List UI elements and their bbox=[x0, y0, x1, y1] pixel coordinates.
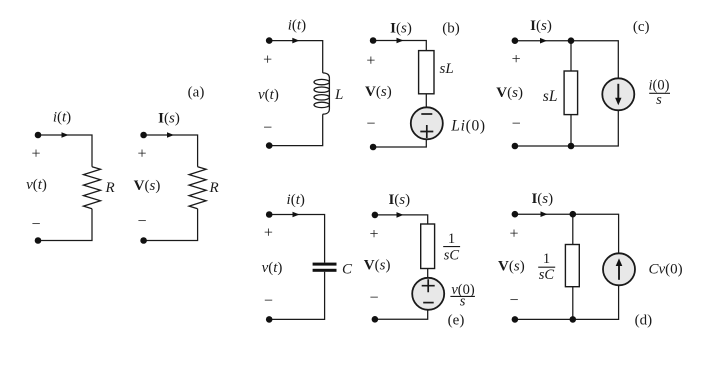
svg-text:i(t): i(t) bbox=[53, 110, 71, 126]
wire e bbox=[375, 215, 428, 319]
arrow I(s) d bbox=[541, 211, 548, 217]
svg-text:I(s): I(s) bbox=[531, 191, 553, 207]
svg-text:C: C bbox=[342, 262, 353, 278]
arrow I(s) e bbox=[397, 212, 404, 218]
wire L circuit bbox=[269, 41, 323, 146]
node c top junction bbox=[568, 37, 575, 44]
svg-text:L: L bbox=[334, 87, 343, 103]
wire C circuit bbox=[269, 215, 324, 320]
svg-text:−: − bbox=[369, 290, 378, 307]
svg-text:(d): (d) bbox=[635, 313, 653, 329]
node d bottom junction bbox=[570, 316, 577, 323]
svg-text:+: + bbox=[264, 225, 273, 242]
svg-text:v(t): v(t) bbox=[262, 260, 283, 276]
svg-text:s: s bbox=[460, 294, 466, 310]
impedance box 1/sC (e) bbox=[421, 224, 435, 269]
arrow I(s) b bbox=[397, 38, 404, 44]
node e bottom terminal bbox=[372, 316, 379, 323]
node C bottom terminal bbox=[266, 316, 273, 323]
svg-text:V(s): V(s) bbox=[496, 85, 523, 101]
svg-text:−: − bbox=[263, 120, 272, 137]
capacitor C plates bbox=[313, 263, 337, 266]
current source Cv(0) bbox=[603, 253, 635, 285]
node c top terminal bbox=[512, 37, 519, 44]
svg-text:R: R bbox=[209, 180, 219, 196]
svg-text:I(s): I(s) bbox=[158, 111, 180, 127]
svg-text:s: s bbox=[656, 92, 662, 108]
svg-text:I(s): I(s) bbox=[390, 21, 412, 37]
impedance box sL bbox=[419, 51, 434, 94]
node d top junction bbox=[570, 211, 577, 218]
svg-text:i(t): i(t) bbox=[288, 17, 306, 33]
node b bottom terminal bbox=[370, 144, 377, 151]
impedance box 1/sC (d) bbox=[565, 245, 579, 287]
svg-text:(b): (b) bbox=[442, 21, 460, 37]
svg-text:−: − bbox=[31, 216, 40, 233]
svg-text:sL: sL bbox=[440, 61, 454, 77]
wire b bbox=[373, 41, 426, 148]
node L bottom terminal bbox=[266, 142, 273, 149]
node A2 bottom terminal bbox=[140, 237, 147, 244]
svg-text:+: + bbox=[31, 146, 40, 163]
svg-text:sL: sL bbox=[543, 88, 558, 105]
svg-text:−: − bbox=[264, 293, 273, 310]
label i(0)/s fraction bbox=[649, 78, 670, 109]
node d top terminal bbox=[512, 211, 519, 218]
svg-text:+: + bbox=[366, 53, 375, 70]
svg-text:(c): (c) bbox=[633, 19, 650, 35]
svg-text:1: 1 bbox=[448, 231, 455, 247]
node C top terminal bbox=[266, 211, 273, 218]
svg-text:sC: sC bbox=[539, 267, 555, 283]
minus inside source b bbox=[421, 113, 432, 115]
svg-text:Li(0): Li(0) bbox=[450, 117, 486, 134]
label 1/sC fraction (d) bbox=[538, 251, 555, 283]
node e top terminal bbox=[372, 212, 379, 219]
voltage source v(0)/s bbox=[412, 278, 444, 310]
wire A2 bbox=[144, 135, 198, 241]
svg-text:V(s): V(s) bbox=[498, 259, 525, 275]
plus inside source b bbox=[420, 125, 433, 138]
svg-text:−: − bbox=[366, 116, 375, 133]
svg-text:V(s): V(s) bbox=[365, 84, 392, 100]
plus inside source e bbox=[422, 279, 435, 292]
svg-text:−: − bbox=[512, 116, 521, 133]
wire c bbox=[515, 41, 618, 146]
svg-text:+: + bbox=[512, 51, 521, 68]
arrow inside source c (down) bbox=[617, 84, 619, 100]
arrow i(t) A1 bbox=[62, 132, 69, 138]
node c bottom junction bbox=[568, 143, 575, 150]
wire top A1 bbox=[38, 135, 92, 241]
node A2 top terminal bbox=[140, 132, 147, 139]
svg-text:i(t): i(t) bbox=[287, 192, 305, 208]
svg-text:V(s): V(s) bbox=[134, 178, 161, 194]
arrow inside source d (up) bbox=[618, 264, 620, 280]
resistor R (s domain) bbox=[189, 167, 206, 209]
node A1 top terminal bbox=[35, 132, 42, 139]
svg-text:V(s): V(s) bbox=[364, 258, 391, 274]
label v(0)/s fraction bbox=[450, 282, 475, 310]
node c bottom terminal bbox=[512, 143, 519, 150]
svg-text:1: 1 bbox=[543, 251, 550, 267]
svg-text:(e): (e) bbox=[448, 313, 465, 329]
svg-text:+: + bbox=[263, 52, 272, 69]
svg-text:Cv(0): Cv(0) bbox=[649, 262, 683, 278]
arrow i(t) C bbox=[293, 212, 300, 218]
arrow i(t) L bbox=[292, 38, 299, 44]
inductor L coil bbox=[314, 73, 329, 114]
arrow I(s) A2 bbox=[167, 132, 174, 138]
svg-text:v(t): v(t) bbox=[258, 87, 279, 103]
impedance box sL (c) bbox=[564, 71, 578, 115]
voltage source Li(0) bbox=[411, 107, 443, 139]
svg-text:v(t): v(t) bbox=[26, 177, 47, 193]
svg-text:−: − bbox=[137, 213, 146, 230]
svg-text:I(s): I(s) bbox=[388, 192, 410, 208]
svg-text:+: + bbox=[369, 226, 378, 243]
node b top terminal bbox=[370, 37, 377, 44]
label 1/sC fraction (e) bbox=[443, 231, 460, 263]
svg-text:sC: sC bbox=[444, 247, 460, 263]
arrow I(s) c bbox=[540, 38, 547, 44]
current source i(0)/s bbox=[602, 78, 634, 110]
svg-text:R: R bbox=[105, 180, 115, 196]
wire d bbox=[515, 214, 619, 319]
svg-text:I(s): I(s) bbox=[530, 18, 552, 34]
svg-text:+: + bbox=[137, 146, 146, 163]
svg-text:+: + bbox=[509, 226, 518, 243]
node d bottom terminal bbox=[512, 316, 519, 323]
svg-text:(a): (a) bbox=[188, 85, 205, 101]
minus inside source e bbox=[423, 302, 434, 304]
node L top terminal bbox=[266, 37, 273, 44]
svg-text:−: − bbox=[509, 292, 518, 309]
node A1 bottom terminal bbox=[35, 237, 42, 244]
resistor R (time domain) bbox=[84, 167, 101, 209]
